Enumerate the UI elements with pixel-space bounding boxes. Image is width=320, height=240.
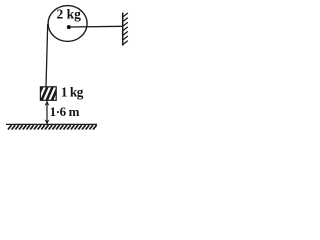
rope <box>46 24 48 87</box>
block 1 kg hatching <box>36 86 64 102</box>
arrowhead up <box>44 101 49 106</box>
distance arrow shaft <box>46 101 48 124</box>
wall hatching <box>123 13 128 45</box>
wall line <box>122 13 124 46</box>
ground line <box>6 123 97 125</box>
axle rod to wall <box>69 25 123 28</box>
svg-text:2 kg: 2 kg <box>57 7 82 22</box>
pulley axle dot <box>67 25 71 29</box>
block 1 kg outline <box>40 87 56 101</box>
arrowhead down <box>44 119 49 124</box>
ground hatching <box>8 125 97 129</box>
svg-text:1·6 m: 1·6 m <box>50 104 80 119</box>
svg-text:1 kg: 1 kg <box>61 84 84 99</box>
pulley wheel <box>48 6 87 42</box>
